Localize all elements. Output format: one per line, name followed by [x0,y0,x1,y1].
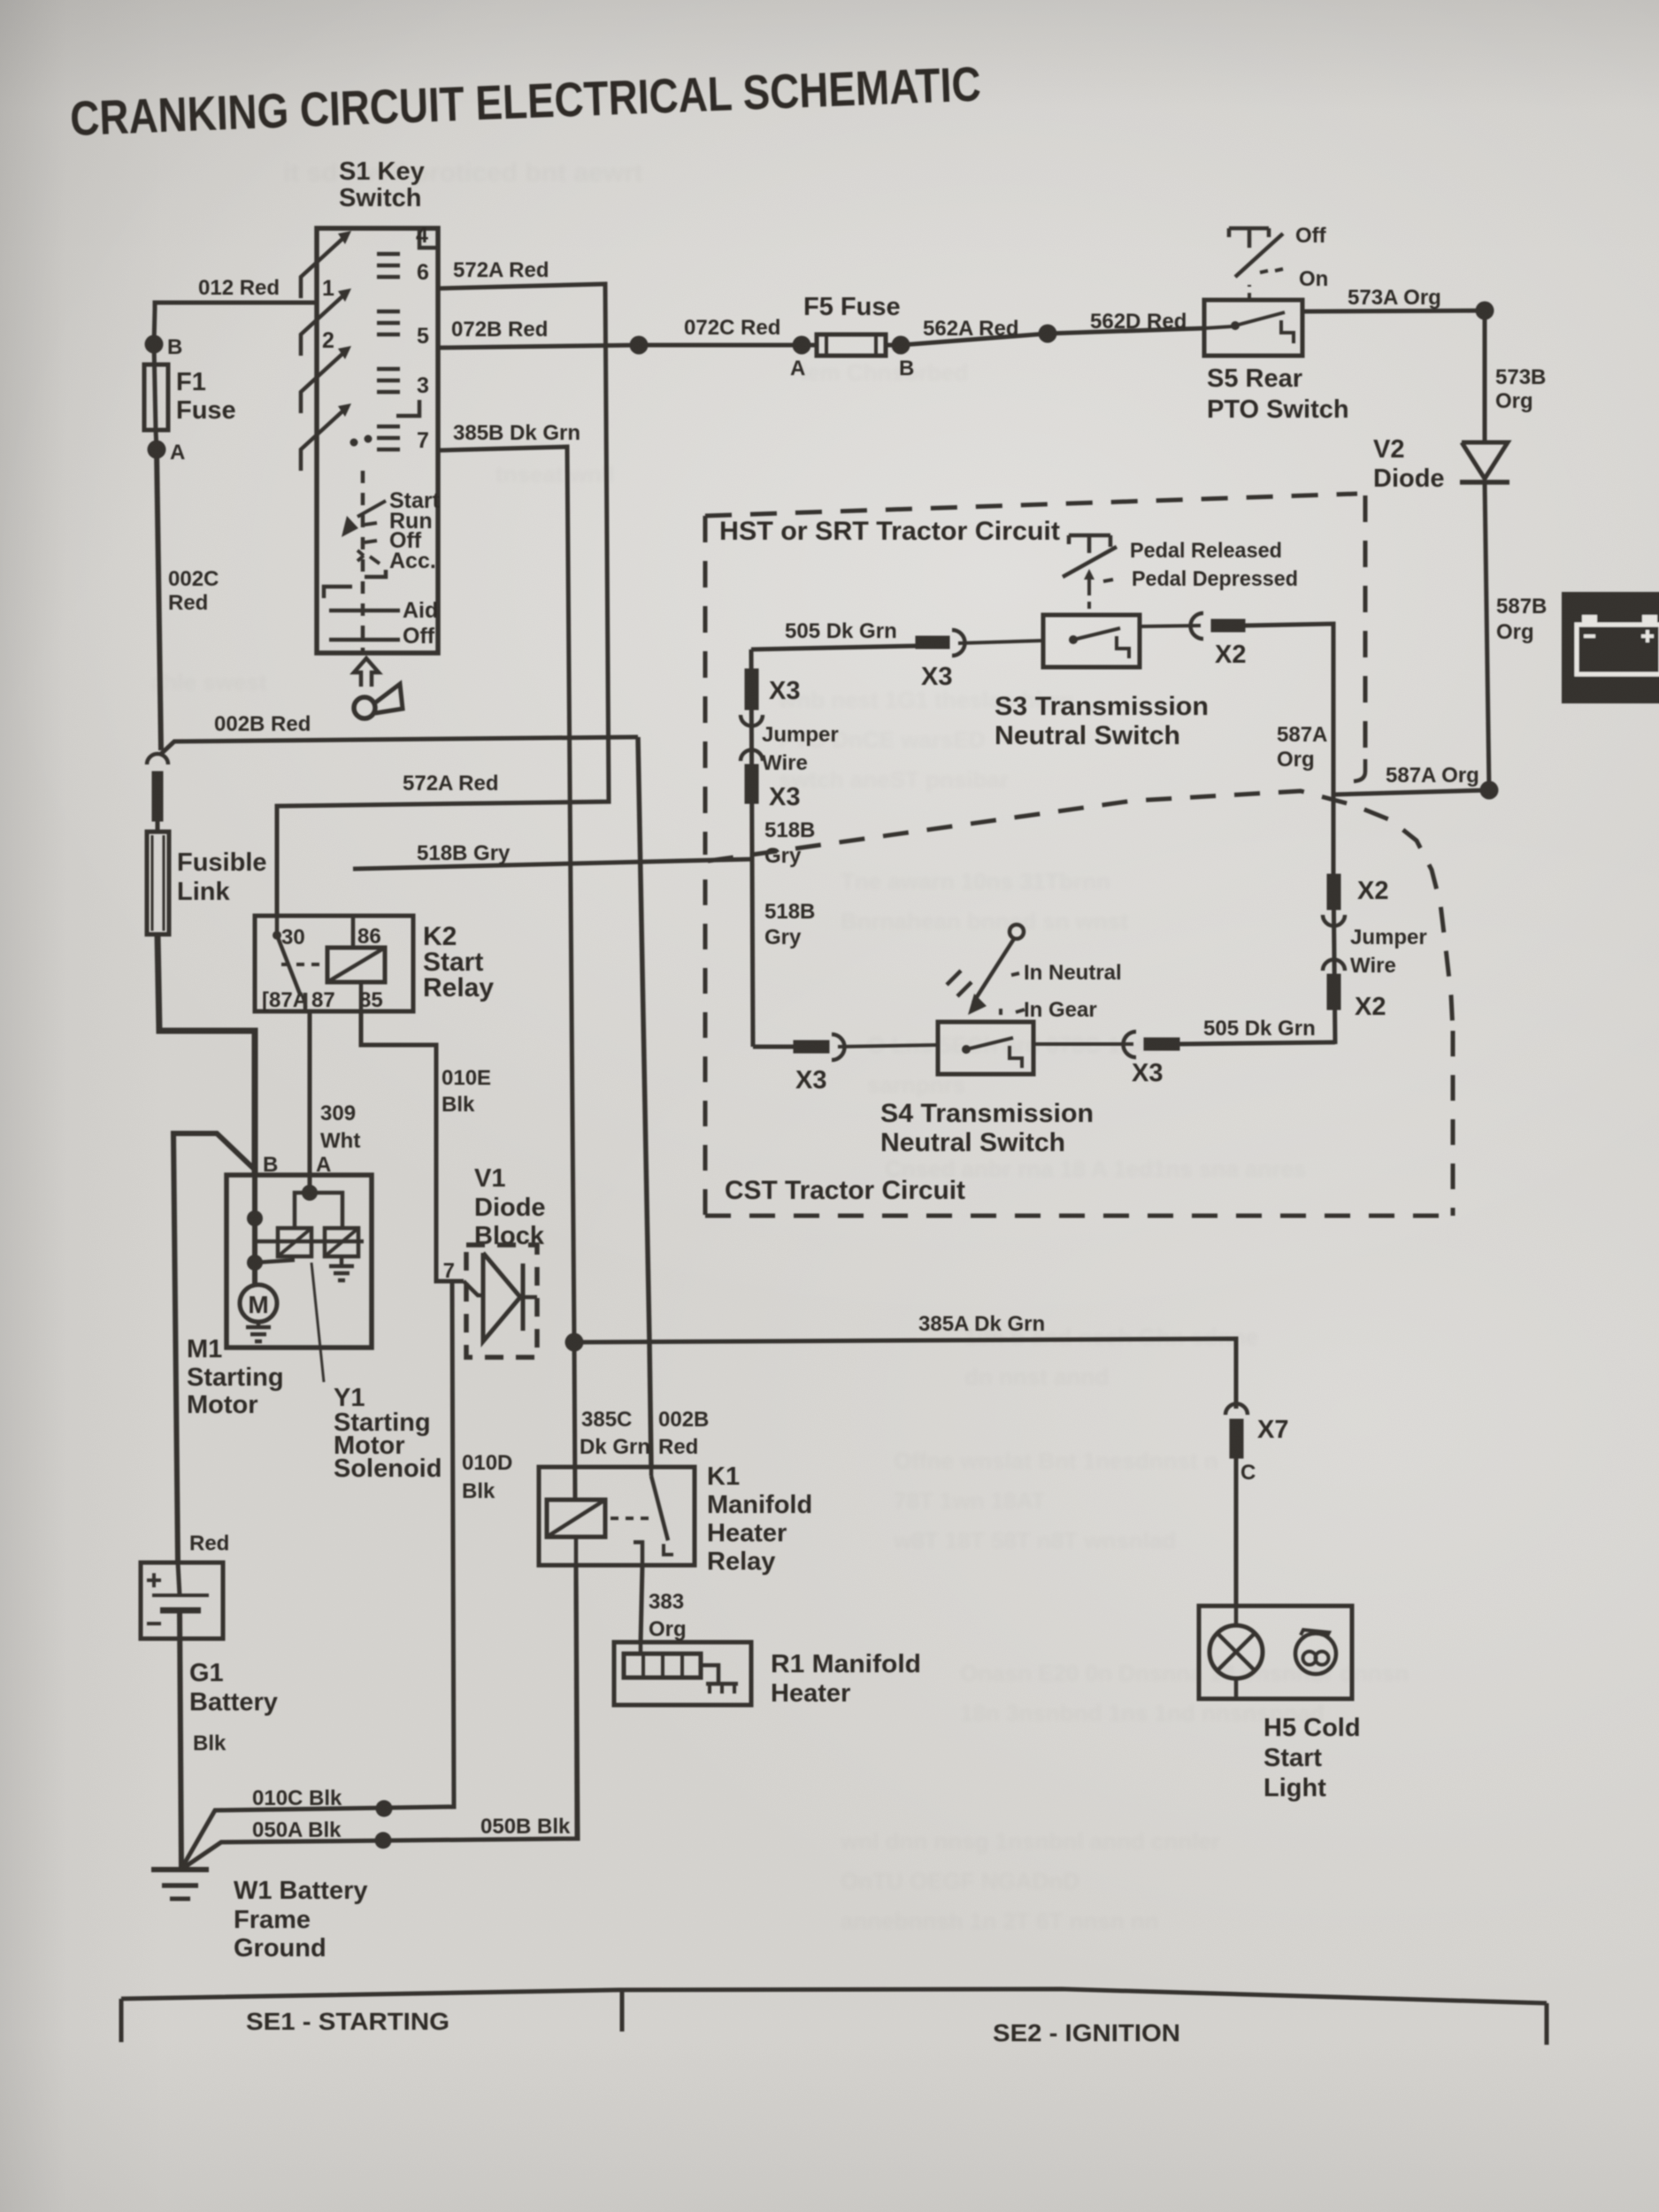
connector X3 lower [741,749,763,761]
wire 002B Red to K1 [649,1342,651,1467]
S1 key actuator symbol [354,658,379,687]
wire 562A Red [901,334,1048,345]
HST box corner hook [1354,759,1365,781]
S1 off contact plate [329,638,400,642]
diode block V1 dashed box [466,1245,537,1357]
solenoid feed bracket [295,1193,342,1228]
wire 010D/010C Blk [181,1281,454,1869]
node B of F5 [892,336,910,355]
S5 toggle symbol [1229,227,1269,231]
Y1 label leader [311,1263,324,1382]
switch S1 box [317,228,438,653]
wire S4 to X3 [1033,1042,1133,1046]
K2 coil [327,948,385,982]
wire 002B Red vertical [638,737,649,1342]
connector X2 upper [1327,874,1340,910]
node on B lead [247,1210,263,1226]
switch S4 box [938,1022,1033,1074]
motor M [240,1285,277,1322]
node A inside M1 [302,1185,318,1201]
wire 309 Wht [308,1011,312,1175]
wire 002B Red horizontal [161,737,638,754]
ground (solenoid coil 2) [340,1256,344,1266]
motor M1 box [227,1175,372,1348]
node B of F1 [145,335,164,354]
wire 505 Dk Grn (HST) [751,646,916,649]
K1 contact [649,1467,654,1476]
wire 562D Red [1048,328,1204,334]
wire 573B Org [1483,311,1487,442]
wire 385C Dk Grn [574,1342,575,1500]
R1 heater element [624,1654,701,1678]
wire 385B Dk Grn [438,447,574,1342]
wire 518B Gry [353,859,753,869]
junction 587A [1480,781,1499,800]
wire 072C Red [639,343,802,348]
wire Blk battery negative [180,1610,181,1870]
wire into F1 [154,309,155,344]
connector X2 lower [1323,959,1345,971]
wire Red battery positive [173,1133,255,1563]
battery pictogram [1562,592,1659,703]
H5 glow plug icon [1295,1633,1336,1674]
fuse F5 [817,334,886,356]
solenoid coil 1 [278,1228,311,1256]
S5 actuator stem [1248,285,1251,300]
switch S3 box [1043,615,1140,667]
junction 010C [376,1801,393,1817]
wire 072B Red [438,345,639,348]
wire 573A Org [1302,311,1485,311]
K2 coil-contact link [281,963,326,966]
switch S5 box [1204,300,1302,356]
battery G1 symbol [147,1578,161,1582]
wire 572A Red [277,284,609,916]
ground W1 battery frame ground [151,1867,209,1872]
wire 383 Org [641,1565,642,1644]
heater R1 box [614,1642,751,1705]
K1 coil [547,1500,605,1537]
wire 587B Org [1485,482,1489,790]
CST box right edge [1451,1031,1455,1216]
junction 385 [565,1333,584,1352]
junction 562 [1039,325,1057,343]
S1 aid contact plate [329,609,400,613]
battery G1 box [141,1563,223,1639]
pin 4 stub [419,228,438,248]
wire [156,821,160,832]
K2 pin 85 lead [359,982,364,1011]
S1 pole 1-5 [301,296,343,356]
S1 pin7 contact dots [350,439,358,447]
coil 1 return [255,1260,295,1263]
B lead [252,1175,257,1285]
wire through F1 [154,344,156,430]
R1 feed [639,1644,643,1654]
pin 3 stub [396,400,419,416]
S4 contact [962,1045,971,1054]
wire jumper X2 [1333,874,1335,1044]
S3 pedal toggle symbol [1069,534,1110,538]
connector X3 upper [745,669,758,710]
fusible link [147,832,169,934]
wire into S4 [838,1045,938,1047]
relay K1 box [539,1467,695,1565]
ground (R1) [706,1682,738,1686]
CST box bottom edge [705,1214,1453,1218]
wire into S3 [958,641,1043,643]
node A of F1 [148,441,166,459]
wire S3 to X2 [1140,626,1201,626]
diode V2 [1462,442,1508,479]
ground (motor) [257,1322,261,1327]
node A of F5 [793,336,811,355]
wire fusible link to starter B [157,934,255,1175]
section bracket SE1/SE2 [121,1989,1547,2003]
S3 contact [1069,635,1078,644]
CST box left edge [703,879,708,1216]
wire to H5 [1234,1458,1239,1606]
wire 587A Org (inner) [1245,624,1333,874]
light H5 box [1199,1606,1352,1699]
junction 573A [1476,302,1494,320]
wire 002C Red [157,449,161,750]
fuse F1 [144,365,168,430]
wire 385A Dk Grn [574,1339,1236,1409]
K2 pin 86 lead [351,916,356,948]
H5 lamp [1210,1625,1263,1678]
wire jumper X3 [751,649,753,1047]
HST box right edge [1363,495,1368,757]
solenoid coil 2 [325,1228,358,1256]
junction 072 [630,336,649,355]
connector X2 on S3 output [1191,613,1204,639]
S1 pole 7 [301,411,343,471]
CST/HST dashed boundary [708,791,1453,1031]
wire 505 Dk Grn (CST) [1179,1042,1335,1044]
S1 pole 4-6 [301,238,343,298]
diode V1 [464,1281,483,1295]
connector pin above fusible link [152,772,163,821]
HST box top edge [705,494,1357,516]
S5 contact [1204,326,1232,328]
S1 aid/off contact brackets [365,570,386,577]
connector X7 [1225,1404,1248,1416]
R1 element tail [701,1665,718,1684]
A lead [308,1175,312,1193]
K1 coil-contact link [611,1517,654,1520]
connector X3 on 505 wire [916,636,949,649]
K1 coil ground lead [574,1537,579,1565]
wire 518B to X3 [753,1045,794,1049]
wire 050A/050B Blk [182,1565,578,1869]
S1 position arrow [342,516,358,537]
wire 012 Red [155,303,317,309]
junction 050A [375,1832,392,1849]
S1 pole 2-3 [301,353,343,413]
connector arc above fusible link [147,754,168,764]
relay K2 box [255,916,413,1011]
S4 lever symbol [1010,925,1024,939]
HST box left edge [703,516,708,855]
wire 587A Org [1333,790,1489,795]
wire K1 coil to 050B [576,1565,577,1839]
connector X3 (S4 left) [794,1041,829,1053]
node to coil 1 [247,1255,263,1271]
S1 rotary shaft [361,471,365,653]
solenoid bus bar [254,1240,364,1244]
wire 010E Blk [361,1011,464,1281]
K2 contact [273,931,281,940]
S1 leader to Start [357,501,386,517]
connector X3 (S4 right) [1124,1032,1137,1057]
